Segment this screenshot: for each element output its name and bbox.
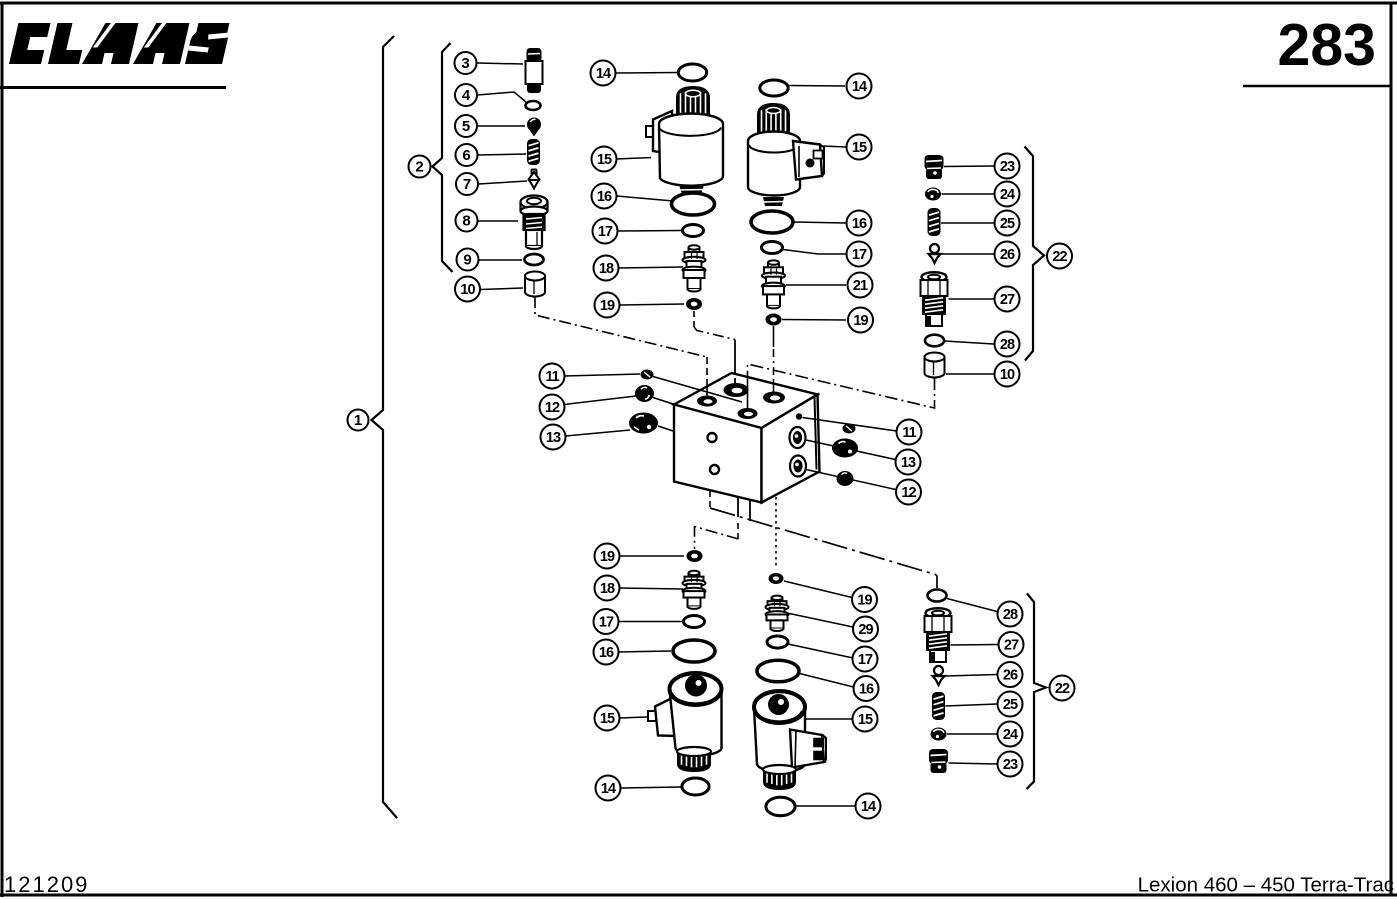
leader 11 left xyxy=(564,374,640,376)
leader 19 bottom-right xyxy=(784,581,852,598)
callout circle 22 bottom xyxy=(1050,676,1075,701)
o-ring item 17 bottom-right xyxy=(767,636,788,648)
svg-text:5: 5 xyxy=(462,118,470,135)
callout circle 13 right xyxy=(896,450,921,475)
svg-text:17: 17 xyxy=(599,615,614,631)
callout circle 19 top-right xyxy=(848,308,873,333)
leader 9 xyxy=(479,259,522,261)
svg-text:19: 19 xyxy=(600,549,615,565)
o-ring item 16 top-right xyxy=(751,211,793,233)
callout circle 17 bottom-left xyxy=(594,609,619,634)
fitting item 18 bottom-left xyxy=(683,571,706,609)
svg-text:14: 14 xyxy=(861,799,876,815)
centerline port B drop upper xyxy=(734,340,736,379)
o-ring item 17 top-left xyxy=(683,225,704,237)
leader 14 bottom-right xyxy=(796,805,855,807)
solenoid valve item 15 top-right xyxy=(748,103,824,206)
centerline o-ring19R to port D xyxy=(773,326,775,347)
leader 29 xyxy=(787,613,853,627)
rule under page number xyxy=(1243,85,1391,88)
port B on block top xyxy=(724,383,749,397)
spring item 25 bottom xyxy=(932,692,945,720)
leader 28 bottom xyxy=(947,599,997,612)
svg-text:12: 12 xyxy=(545,400,560,416)
leader 7 xyxy=(479,181,528,184)
spring item 25 top xyxy=(928,208,941,236)
bracket 2 xyxy=(433,43,453,272)
svg-text:14: 14 xyxy=(852,79,867,95)
small hole on block right face xyxy=(796,413,802,419)
centerline port A drop lower xyxy=(706,380,708,399)
svg-text:14: 14 xyxy=(596,66,611,82)
callout circle 16 top-right xyxy=(847,211,872,236)
callout circle 12 left xyxy=(540,395,565,420)
leader 3 xyxy=(477,63,523,64)
svg-text:29: 29 xyxy=(858,622,873,638)
leader 16 top-left xyxy=(617,196,673,201)
leader 26 bottom xyxy=(946,675,998,677)
leader 8 xyxy=(478,220,518,222)
svg-text:23: 23 xyxy=(1000,159,1015,175)
leader 14 top-left xyxy=(616,72,677,75)
callout circle 11 right xyxy=(897,420,922,445)
svg-text:121209: 121209 xyxy=(4,872,89,897)
callout circle 19 bottom-left xyxy=(595,544,620,569)
spring item 6 xyxy=(527,139,540,165)
svg-text:15: 15 xyxy=(597,152,612,168)
o-ring item 9 xyxy=(525,254,544,265)
leader 4 xyxy=(478,92,527,102)
callout circle 25 bottom xyxy=(998,692,1023,717)
port A on block top xyxy=(697,396,717,407)
svg-text:28: 28 xyxy=(1000,337,1015,353)
plug item 11 right xyxy=(843,424,856,434)
leader 10 xyxy=(481,288,524,290)
svg-text:18: 18 xyxy=(600,581,615,597)
callout circle 13 left xyxy=(541,425,566,450)
leader 10 right xyxy=(946,373,994,375)
svg-text:17: 17 xyxy=(858,652,873,668)
callout circle 17 top-right xyxy=(847,242,872,267)
bracket 22 bottom xyxy=(1027,594,1047,790)
leader 15 top-left xyxy=(617,158,652,160)
svg-text:11: 11 xyxy=(902,425,916,441)
leader 17 top-right xyxy=(783,250,846,255)
callout circle 29 xyxy=(853,617,878,642)
svg-text:26: 26 xyxy=(1003,668,1018,684)
leader 25 top xyxy=(941,222,994,224)
svg-text:19: 19 xyxy=(600,298,615,314)
o-ring item 16 top-left xyxy=(672,193,715,215)
leader 15 bottom-left xyxy=(620,717,648,718)
callout circle 16 bottom-left xyxy=(594,640,619,665)
callout circle 8 xyxy=(456,210,478,232)
svg-text:15: 15 xyxy=(600,711,615,727)
o-ring item 19 top-right xyxy=(766,314,782,326)
svg-text:6: 6 xyxy=(462,147,470,164)
svg-text:24: 24 xyxy=(1000,187,1015,203)
fitting item 18 top-left xyxy=(683,245,706,291)
svg-text:25: 25 xyxy=(1003,697,1018,713)
leader 14 bottom-left xyxy=(621,787,682,788)
plug item 13 right xyxy=(832,439,858,458)
plug item 12 right xyxy=(837,471,854,486)
centerline below block stub 1 xyxy=(737,497,739,517)
plug item 23 top xyxy=(925,155,944,179)
callout circle 15 top-right xyxy=(847,135,872,160)
leader 16 top-right xyxy=(794,222,846,223)
leader 15 top-right xyxy=(823,146,846,147)
svg-text:16: 16 xyxy=(859,682,874,698)
fitting item 21 xyxy=(762,260,785,308)
callout circle 9 xyxy=(457,249,479,271)
callout circle 6 xyxy=(456,144,478,166)
svg-text:25: 25 xyxy=(1000,216,1015,232)
svg-text:24: 24 xyxy=(1003,727,1018,743)
port on block right face lower xyxy=(790,456,806,477)
callout circle 15 bottom-right xyxy=(853,707,878,732)
callout circle 19 bottom-right xyxy=(852,587,877,612)
hole on block front lower xyxy=(710,465,719,474)
svg-text:16: 16 xyxy=(852,216,867,232)
svg-text:10: 10 xyxy=(460,282,475,298)
svg-text:9: 9 xyxy=(463,252,471,269)
leader 15 bottom-right xyxy=(806,718,852,720)
valve block body xyxy=(674,373,820,503)
centerline item10-left to port A xyxy=(535,296,707,357)
svg-text:10: 10 xyxy=(1000,367,1015,383)
svg-text:19: 19 xyxy=(857,593,872,609)
svg-text:16: 16 xyxy=(599,645,614,661)
leader 19 bottom-left xyxy=(620,555,685,557)
leader 27 bottom xyxy=(951,644,998,647)
callout circle 24 bottom xyxy=(998,722,1023,747)
leader 11 right xyxy=(803,418,897,432)
o-ring item 19 top-left xyxy=(686,298,702,310)
leader 24 top xyxy=(942,193,994,195)
leader 16 bottom-right xyxy=(800,674,854,688)
svg-text:27: 27 xyxy=(1004,638,1019,654)
svg-text:14: 14 xyxy=(601,781,616,797)
callout circle 28 bottom xyxy=(998,602,1023,627)
o-ring item 28 bottom xyxy=(928,590,947,602)
leader 13 right xyxy=(806,440,896,460)
plug item 12 left xyxy=(635,385,654,402)
solenoid valve item 15 bottom-right xyxy=(754,691,826,790)
centerline below block to item 28 xyxy=(709,491,711,508)
leader 19 top-right xyxy=(782,319,846,322)
svg-text:19: 19 xyxy=(853,313,868,329)
callout circle 19 top-left xyxy=(595,293,620,318)
leader 17 bottom-left xyxy=(619,621,683,623)
svg-text:15: 15 xyxy=(858,712,873,728)
callout circle 14 bottom-right xyxy=(856,794,881,819)
centerline port B drop lower xyxy=(734,378,736,388)
callout circle 10 xyxy=(455,277,480,302)
leader 11 left diagonal xyxy=(653,377,742,403)
callout circle 21 xyxy=(848,273,873,298)
leader 14 top-right xyxy=(789,85,845,88)
svg-text:7: 7 xyxy=(463,176,471,193)
sleeve item 10 right xyxy=(925,353,945,378)
callout circle 17 top-left xyxy=(593,219,618,244)
port D on block top xyxy=(763,392,785,404)
callout circle 18 bottom-left xyxy=(595,576,620,601)
leader 6 xyxy=(478,154,526,155)
svg-text:13: 13 xyxy=(901,455,916,471)
poppet item 7 xyxy=(529,170,540,189)
svg-text:13: 13 xyxy=(546,430,561,446)
svg-text:17: 17 xyxy=(852,247,867,263)
leader 21 xyxy=(786,284,846,286)
o-ring item 28 top xyxy=(925,335,944,347)
callout circle 22 top xyxy=(1047,244,1072,269)
svg-text:283: 283 xyxy=(1278,12,1376,78)
rule under logo xyxy=(0,86,226,89)
o-ring item 14 top-right xyxy=(760,80,788,96)
callout circle 27 bottom xyxy=(999,632,1024,657)
o-ring item 19 bottom-left xyxy=(687,550,703,562)
o-ring item 14 top-left xyxy=(678,64,706,81)
leader 18 bottom-left xyxy=(620,588,684,589)
centerline o-ring19 to port B xyxy=(693,311,695,327)
svg-text:2: 2 xyxy=(415,159,423,176)
leader 5 xyxy=(478,125,526,127)
callout circle 28 top xyxy=(995,332,1020,357)
centerline below block stub 1b xyxy=(737,523,739,539)
svg-text:16: 16 xyxy=(597,189,612,205)
CLAAS logo xyxy=(9,23,231,64)
port on block right face upper xyxy=(790,427,806,448)
o-ring item 16 bottom-right xyxy=(757,660,799,682)
plug item 11 left xyxy=(641,370,654,380)
callout circle 16 bottom-right xyxy=(854,676,879,701)
leader 19 top-left xyxy=(620,304,685,305)
cartridge item 8 xyxy=(521,196,548,250)
svg-text:8: 8 xyxy=(462,213,470,230)
callout circle 14 top-right xyxy=(847,74,872,99)
centerline port D drop lower xyxy=(773,381,775,395)
leader 12 right xyxy=(806,470,896,490)
callout circle 3 xyxy=(455,52,477,74)
callout circle 25 top xyxy=(995,211,1020,236)
callout circle 26 top xyxy=(995,242,1020,267)
svg-text:3: 3 xyxy=(461,55,469,72)
callout circle 14 top-left xyxy=(591,61,616,86)
svg-text:27: 27 xyxy=(1000,292,1015,308)
plug item 23 bottom xyxy=(929,749,948,773)
leader 18 top-left xyxy=(619,267,684,268)
callout circle 12 right xyxy=(896,480,921,505)
callout circle 17 bottom-right xyxy=(853,647,878,672)
leader 12 left xyxy=(564,396,636,405)
centerline port A drop upper xyxy=(706,357,708,380)
callout circle 23 bottom xyxy=(998,752,1023,777)
ball-seat item 5 xyxy=(527,118,541,137)
leader 16 bottom-left xyxy=(619,651,672,652)
nut item 24 top xyxy=(925,188,941,201)
callout circle 7 xyxy=(456,173,478,195)
svg-text:15: 15 xyxy=(852,140,867,156)
callout circle 11 left xyxy=(540,364,565,389)
centerline long diagonal to item 28 xyxy=(710,508,937,588)
sleeve item 10 xyxy=(525,272,545,297)
centerline port C drop lower xyxy=(747,378,749,411)
cartridge item 27 top xyxy=(921,272,948,326)
svg-text:4: 4 xyxy=(462,87,471,104)
o-ring item 17 bottom-left xyxy=(684,616,705,628)
callout circle 14 bottom-left xyxy=(596,776,621,801)
callout circle 27 top xyxy=(995,287,1020,312)
poppet item 26 top xyxy=(929,244,941,263)
leader 25 bottom xyxy=(946,704,998,706)
centerline below block stub 2 xyxy=(749,501,751,522)
callout circle 5 xyxy=(455,115,477,137)
callout circle 18 top-left xyxy=(594,256,619,281)
o-ring item 16 bottom-left xyxy=(673,640,715,662)
svg-text:18: 18 xyxy=(599,261,614,277)
leader 17 bottom-right xyxy=(788,644,853,658)
callout circle 15 bottom-left xyxy=(595,706,620,731)
solenoid valve item 15 bottom-left xyxy=(648,673,722,772)
callout circle 24 top xyxy=(995,182,1020,207)
leader 28 top xyxy=(945,341,994,344)
svg-text:11: 11 xyxy=(545,369,559,385)
leader 27 top xyxy=(949,298,994,300)
leader 23 bottom xyxy=(949,763,998,764)
callout circle 23 top xyxy=(995,154,1020,179)
callout circle 26 bottom xyxy=(998,662,1023,687)
centerline jog to lower-left column xyxy=(695,527,739,550)
svg-text:22: 22 xyxy=(1052,249,1067,265)
callout circle 1 xyxy=(348,410,369,431)
callout circle 10 right xyxy=(995,362,1020,387)
svg-text:12: 12 xyxy=(901,485,916,501)
svg-text:28: 28 xyxy=(1003,607,1018,623)
cartridge item 27 bottom xyxy=(925,608,952,662)
o-ring item 4 xyxy=(526,101,541,110)
solenoid valve item 15 top-left xyxy=(646,86,723,194)
leader 13 left diagonal xyxy=(658,426,673,431)
svg-text:17: 17 xyxy=(598,224,613,240)
svg-text:Lexion 460 – 450 Terra-Trac: Lexion 460 – 450 Terra-Trac xyxy=(1138,874,1394,897)
callout circle 16 top-left xyxy=(592,184,617,209)
centerline port D drop upper xyxy=(773,349,775,381)
o-ring item 14 bottom-left xyxy=(682,778,709,795)
hole on block front upper xyxy=(708,433,717,442)
centerline to lower-right column xyxy=(775,497,777,569)
leader 26 top xyxy=(941,253,994,255)
callout circle 2 xyxy=(409,156,431,178)
callout circle 4 xyxy=(455,84,477,106)
leader 12 left diagonal xyxy=(653,398,673,405)
callout circle 15 top-left xyxy=(592,147,617,172)
svg-text:23: 23 xyxy=(1003,757,1018,773)
o-ring item 17 top-right xyxy=(762,242,783,254)
centerline item10-right to port C xyxy=(748,364,935,408)
plug item 3 xyxy=(526,48,543,93)
svg-text:26: 26 xyxy=(1000,247,1015,263)
fitting item 29 xyxy=(766,596,789,631)
leader 13 left xyxy=(566,430,631,436)
svg-text:1: 1 xyxy=(354,412,362,429)
leader 17 top-left xyxy=(618,230,681,233)
poppet item 26 bottom xyxy=(933,666,945,685)
o-ring item 14 bottom-right xyxy=(766,797,795,815)
bracket 1 xyxy=(372,36,398,818)
leader 23 top xyxy=(944,165,994,168)
svg-text:22: 22 xyxy=(1055,681,1070,697)
plug item 13 left xyxy=(629,413,658,434)
port C on block top xyxy=(738,408,758,419)
nut item 24 bottom xyxy=(931,728,947,741)
svg-text:21: 21 xyxy=(853,278,868,294)
bracket 22 top xyxy=(1025,147,1045,361)
centerline port B elbow xyxy=(694,327,735,340)
o-ring item 19 bottom-right xyxy=(769,573,784,584)
leader 24 bottom xyxy=(947,733,997,735)
